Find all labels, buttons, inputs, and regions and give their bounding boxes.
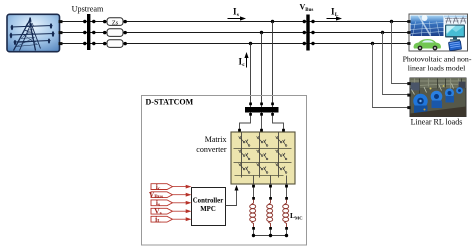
wire RL tap B bbox=[383, 33, 408, 95]
blue battery box bbox=[448, 41, 461, 51]
label VBus bbox=[300, 3, 314, 14]
svg-text:D-STATCOM: D-STATCOM bbox=[146, 98, 194, 107]
inductor LMC phase a bbox=[250, 200, 256, 228]
input tag VBus bbox=[149, 190, 192, 200]
impedance phase C bbox=[103, 40, 127, 48]
node dots at VBus bar bbox=[303, 20, 306, 23]
current label IL with arrow bbox=[327, 7, 343, 21]
current label Ic with up arrow bbox=[239, 52, 249, 68]
node tap A to D-STATCOM bbox=[271, 20, 274, 23]
port squares above statcom bus bbox=[249, 103, 252, 106]
wires to filter inductors bbox=[253, 188, 255, 198]
input tag Vs bbox=[151, 206, 192, 216]
current label Is with arrow bbox=[228, 7, 247, 21]
wires bus bar to matrix converter bbox=[240, 113, 251, 131]
svg-text:linear loads model: linear loads model bbox=[408, 64, 466, 73]
svg-text:c: c bbox=[242, 62, 245, 68]
wire controller to matrix converter bbox=[226, 188, 237, 206]
upstream bus bar bbox=[87, 14, 90, 50]
svg-text:Photovoltaic and non-: Photovoltaic and non- bbox=[403, 55, 472, 64]
matrix converter U1 (bidirectional switch array) bbox=[231, 132, 295, 184]
svg-text:MPC: MPC bbox=[200, 206, 216, 213]
wire star point bbox=[254, 230, 287, 236]
wire phase C (bottom, y=43) bbox=[62, 43, 409, 45]
impedance Zs phase A bbox=[103, 18, 127, 27]
node tap A to RL loads bbox=[390, 20, 393, 23]
monitor bbox=[445, 25, 465, 38]
svg-text:Zs: Zs bbox=[112, 19, 119, 26]
switch cells 3x3 bbox=[239, 136, 287, 173]
wire tap C down bbox=[250, 44, 252, 108]
node tap B to RL loads bbox=[381, 31, 384, 34]
small pylons bbox=[444, 16, 467, 25]
input column lines bbox=[241, 133, 243, 178]
PV image input ports bbox=[407, 20, 410, 23]
upstream grid photo (transmission tower image) bbox=[7, 14, 63, 51]
input tag ic bbox=[151, 182, 192, 192]
pumps (blue) bbox=[456, 87, 463, 94]
wire tap A down bbox=[272, 22, 274, 108]
node tap B to D-STATCOM bbox=[260, 31, 263, 34]
node tap C to D-STATCOM bbox=[249, 42, 252, 45]
D-STATCOM boundary box bbox=[142, 96, 307, 246]
matrix converter input ports bbox=[238, 129, 241, 132]
svg-text:converter: converter bbox=[196, 145, 227, 154]
output stubs inside box bbox=[253, 176, 255, 185]
inductor LMC phase c bbox=[283, 200, 289, 228]
statcom input bus bar bbox=[245, 107, 279, 113]
inductor LMC phase b bbox=[267, 200, 273, 228]
linear RL loads image bbox=[407, 78, 466, 117]
VBus bus bar bbox=[306, 15, 309, 51]
impedance phase B bbox=[103, 29, 127, 37]
wire tap B down bbox=[261, 33, 263, 108]
svg-text:s: s bbox=[237, 12, 239, 18]
node dots at upstream bus bbox=[83, 20, 86, 23]
wire RL tap A bbox=[392, 22, 408, 84]
tower image output ports bbox=[59, 20, 63, 23]
node dots star point bbox=[252, 234, 255, 237]
node tap C to RL loads bbox=[371, 42, 374, 45]
controller MPC block bbox=[192, 188, 226, 226]
inductor bottom terminals bbox=[252, 227, 255, 230]
svg-text:Bus: Bus bbox=[305, 8, 313, 13]
input tag is bbox=[151, 198, 192, 208]
svg-text:Upstream: Upstream bbox=[72, 5, 104, 14]
solar panel photo bbox=[411, 16, 444, 37]
wire phase A (top, y=21) bbox=[62, 21, 409, 23]
green car bbox=[414, 39, 442, 50]
svg-text:Controller: Controller bbox=[193, 198, 223, 205]
output row lines bbox=[234, 148, 292, 150]
input tag iL bbox=[151, 214, 192, 224]
RL image input ports bbox=[407, 82, 410, 85]
svg-text:MC: MC bbox=[295, 216, 303, 221]
photovoltaic and non-linear loads model image bbox=[407, 14, 467, 51]
svg-text:Linear RL loads: Linear RL loads bbox=[411, 118, 463, 127]
wire phase B (middle, y=32) bbox=[62, 32, 409, 34]
wire RL tap C bbox=[373, 44, 408, 108]
matrix converter output ports bbox=[252, 185, 255, 188]
svg-text:Matrix: Matrix bbox=[205, 135, 227, 144]
